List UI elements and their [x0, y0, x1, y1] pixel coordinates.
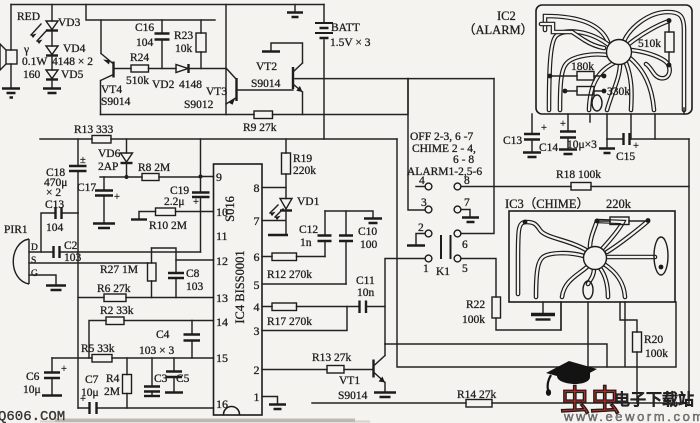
svg-text:2: 2	[418, 222, 424, 234]
svg-text:C11: C11	[356, 275, 375, 287]
svg-text:R13 27k: R13 27k	[312, 352, 352, 364]
capacitor C10 100	[345, 211, 347, 284]
wire terminal 1 to VT1 collector	[385, 259, 425, 345]
resistor 510k	[665, 32, 674, 52]
svg-text:510k: 510k	[638, 38, 661, 50]
svg-text:R13 333: R13 333	[74, 124, 114, 136]
wire riser to C16/R23 top rail	[86, 5, 215, 21]
svg-text:C15: C15	[616, 151, 635, 163]
svg-text:R18 100k: R18 100k	[556, 169, 601, 181]
capacitor C2 103 (on D wire)	[29, 251, 201, 253]
svg-text:电子下载站: 电子下载站	[614, 390, 694, 409]
transistor VT4	[112, 62, 114, 78]
wire diode chain to ground	[51, 80, 53, 89]
resistor R9 27k	[101, 79, 409, 115]
svg-text:+: +	[61, 364, 67, 375]
WIRES-TOPLEFT	[0, 5, 494, 415]
ground (diode chain)	[43, 89, 61, 94]
capacitor C15	[607, 138, 689, 140]
wire terminal 4 stub	[416, 186, 425, 188]
scan smudge bottom	[55, 419, 355, 422]
wire base VT3 to base VT2	[238, 89, 294, 91]
svg-text:R9 27k: R9 27k	[243, 122, 277, 134]
resistor R24 510k (base wire)	[114, 68, 177, 70]
svg-text:VD3: VD3	[58, 17, 81, 29]
svg-text:6 - 8: 6 - 8	[453, 154, 474, 166]
svg-text:S9014: S9014	[101, 96, 131, 108]
svg-text:1.5V × 3: 1.5V × 3	[330, 37, 371, 49]
svg-text:R20: R20	[644, 334, 663, 346]
left vertical bus x78	[77, 213, 79, 408]
svg-text:12: 12	[216, 254, 228, 268]
wire collector column VT3	[225, 5, 227, 115]
op-amp IC4 BISS0001 body	[214, 164, 263, 415]
WATERMARKS	[0, 361, 700, 423]
LED light arrows	[31, 24, 47, 41]
svg-text:www.eeworm.com: www.eeworm.com	[563, 409, 700, 423]
svg-text:2: 2	[254, 363, 260, 377]
svg-text:VD4: VD4	[63, 43, 86, 55]
resistor 180k	[550, 75, 604, 77]
wire terminal 7 to ground	[461, 210, 470, 218]
wire G to ground	[29, 275, 56, 285]
svg-text:180k: 180k	[571, 61, 594, 73]
svg-text:VD5: VD5	[61, 69, 84, 81]
resistor R8 2M	[100, 176, 200, 178]
svg-text:VT1: VT1	[339, 375, 360, 387]
IC2 chip traces	[545, 16, 608, 42]
svg-text:Q606.COM: Q606.COM	[0, 409, 65, 423]
resistor R10 2M	[139, 212, 214, 220]
svg-text:R4: R4	[106, 373, 120, 385]
svg-text:7: 7	[464, 197, 470, 209]
svg-text:+: +	[114, 192, 120, 203]
svg-text:8: 8	[254, 181, 260, 195]
svg-text:C5: C5	[176, 373, 190, 385]
resistor R12 270k (pin6)	[262, 256, 325, 258]
svg-text:10n: 10n	[357, 287, 375, 299]
capacitor C13	[524, 134, 540, 140]
svg-text:K1: K1	[436, 266, 450, 278]
WIRES-RIGHT	[463, 5, 692, 403]
resistor R20 100k	[633, 332, 642, 352]
svg-text:VT4: VT4	[101, 84, 122, 96]
svg-text:104: 104	[136, 37, 154, 49]
svg-text:4148: 4148	[179, 79, 202, 91]
svg-text:160: 160	[23, 69, 41, 81]
svg-text:S9014: S9014	[338, 390, 368, 402]
transistor VT1 S9014	[372, 360, 374, 378]
capacitor C8 103	[152, 248, 177, 298]
wire terminal 6 from rail	[461, 79, 494, 234]
svg-text:9: 9	[216, 170, 222, 184]
svg-text:IC3（CHIME）: IC3（CHIME）	[505, 197, 589, 211]
wire T3 riser x408	[408, 79, 425, 210]
watermark graduation cap	[546, 361, 597, 381]
svg-text:+: +	[560, 119, 566, 130]
resistor R4 2M	[126, 358, 128, 408]
IC3 chip traces	[518, 222, 586, 294]
ground (speaker)	[2, 89, 20, 98]
svg-text:S9014: S9014	[251, 78, 281, 90]
resistor R22 100k	[492, 297, 501, 318]
LED VD1	[280, 199, 292, 210]
svg-text:10μ: 10μ	[81, 387, 99, 399]
wire pin7 and VD1 lower bar	[262, 211, 286, 235]
wire C12/C10 top ground rail	[325, 211, 373, 218]
wire speaker column	[10, 5, 12, 89]
switch K1 contacts	[425, 183, 432, 190]
svg-text:VD1: VD1	[297, 196, 320, 208]
IC2 chip blob	[607, 40, 632, 65]
capacitor C12 1n	[324, 211, 326, 257]
svg-text:103: 103	[64, 252, 82, 264]
svg-text:IC4 BISS0001: IC4 BISS0001	[233, 250, 247, 323]
svg-text:VT3: VT3	[206, 86, 227, 98]
svg-text:0.1W: 0.1W	[22, 56, 47, 68]
svg-text:1: 1	[423, 263, 429, 275]
svg-text:2.2μ: 2.2μ	[164, 196, 185, 208]
speaker LS	[6, 50, 17, 64]
svg-text:1n: 1n	[300, 237, 312, 249]
IC2 top-left staircase trace	[541, 24, 604, 48]
svg-text:R14 27k: R14 27k	[457, 389, 497, 401]
svg-text:C4: C4	[156, 329, 170, 341]
ground (under C15 wire)	[606, 139, 608, 148]
IC2 pin stubs	[532, 108, 684, 139]
svg-text:C14: C14	[539, 142, 558, 154]
svg-text:C10: C10	[358, 226, 377, 238]
svg-text:R10 2M: R10 2M	[149, 220, 187, 232]
capacitor C4	[191, 321, 193, 359]
svg-text:VD6: VD6	[98, 148, 121, 160]
WIRES-MID	[214, 79, 690, 415]
svg-text:S9012: S9012	[184, 99, 214, 111]
resistor R17 270k (pin4)	[262, 306, 359, 308]
svg-text:PIR1: PIR1	[4, 224, 28, 236]
wire VT1 collector rail y344	[385, 344, 607, 367]
wire pin12	[176, 259, 214, 261]
capacitor C13 104 (left)	[41, 213, 78, 252]
svg-text:× 2: × 2	[46, 187, 61, 199]
svg-text:100k: 100k	[462, 314, 485, 326]
resistor R13 27k (pin2)	[262, 369, 373, 371]
svg-text:C6: C6	[26, 371, 40, 383]
svg-text:10μ×3: 10μ×3	[567, 139, 597, 151]
LED VD3	[51, 5, 53, 22]
svg-text:R8 2M: R8 2M	[138, 162, 170, 174]
svg-text:R12 270k: R12 270k	[267, 269, 312, 281]
svg-text:15: 15	[216, 351, 228, 365]
svg-text:4: 4	[254, 300, 260, 314]
svg-text:220k: 220k	[606, 197, 632, 211]
diode VD6 2AP	[126, 139, 128, 153]
svg-text:330k: 330k	[607, 86, 630, 98]
svg-text:γ: γ	[23, 44, 29, 56]
wire terminal 8 / R18 run	[461, 186, 689, 188]
wire S to R27	[29, 262, 148, 264]
IC2 bottom pin oval	[592, 95, 602, 111]
svg-text:G: G	[31, 269, 38, 279]
ground (IC3 pin, heavy)	[531, 313, 555, 316]
svg-text:ALARM1-2,5-6: ALARM1-2,5-6	[407, 166, 482, 178]
ground (top, near battery)	[294, 5, 296, 13]
svg-text:220k: 220k	[293, 165, 316, 177]
switch K1 coupling bars	[441, 235, 451, 259]
supply rail y139 with resistor R13 333	[40, 138, 397, 140]
capacitor C19 2.2u	[192, 193, 210, 198]
svg-text:R6 27k: R6 27k	[97, 283, 131, 295]
resistor R2 33k (pin14 wire)	[89, 321, 214, 359]
ground (C17)	[93, 224, 115, 229]
wire right bus x689	[688, 139, 690, 403]
svg-text:104: 104	[46, 222, 64, 234]
resistor R19 220k	[285, 139, 287, 188]
svg-text:C13: C13	[503, 135, 522, 147]
battery BATT 1.5V x3	[323, 5, 325, 140]
svg-text:S016: S016	[223, 196, 237, 222]
svg-text:R24: R24	[130, 52, 149, 64]
svg-text:16: 16	[216, 397, 228, 411]
wire pin8	[262, 188, 286, 199]
resistor 220k with dots	[597, 220, 648, 222]
svg-text:VD2: VD2	[152, 79, 175, 91]
wire emitter rail y78.6	[295, 78, 494, 80]
svg-text:（ALARM）: （ALARM）	[463, 23, 533, 37]
svg-text:+: +	[541, 123, 547, 134]
capacitor C18 470u x2	[77, 139, 79, 213]
svg-text:+: +	[193, 197, 199, 208]
wire switch feed vertical x397 and y367 run	[397, 139, 676, 367]
svg-text:R22: R22	[466, 299, 485, 311]
capacitor C16	[161, 20, 163, 69]
svg-text:10μ: 10μ	[23, 384, 41, 396]
capacitor C5	[173, 358, 175, 392]
svg-text:RED: RED	[17, 11, 40, 23]
diode VD5	[51, 56, 53, 71]
svg-text:R2 33k: R2 33k	[100, 305, 134, 317]
transistor VT2 S9014	[292, 67, 294, 89]
svg-text:1: 1	[254, 390, 260, 404]
svg-text:10k: 10k	[175, 43, 193, 55]
svg-text:4148 × 2: 4148 × 2	[52, 56, 93, 68]
svg-text:C2: C2	[64, 240, 78, 252]
svg-text:103 × 3: 103 × 3	[139, 345, 174, 357]
svg-text:R23: R23	[174, 30, 193, 42]
svg-text:C7: C7	[85, 374, 99, 386]
svg-text:C17: C17	[77, 182, 96, 194]
svg-text:14: 14	[216, 315, 228, 329]
diode VD4	[51, 31, 53, 47]
capacitor C11 10n	[360, 301, 367, 314]
svg-text:R5 33k: R5 33k	[81, 343, 115, 355]
resistor R18 100k	[571, 183, 591, 191]
wire pin3 with riser to C11	[262, 307, 347, 331]
svg-text:13: 13	[216, 291, 228, 305]
wire top supply rail	[11, 4, 324, 6]
svg-text:±: ±	[80, 155, 86, 166]
wire pin5	[262, 283, 346, 285]
svg-text:VT2: VT2	[256, 61, 277, 73]
diode VD2 4148	[176, 65, 188, 73]
ground (VT1 emitter)	[374, 393, 396, 398]
svg-text:R17 270k: R17 270k	[267, 316, 312, 328]
svg-text:S: S	[31, 256, 36, 266]
svg-text:R27 1M: R27 1M	[100, 264, 138, 276]
svg-text:11: 11	[216, 229, 228, 243]
resistor R6 27k (pin13 wire)	[78, 297, 214, 299]
capacitor C17	[103, 177, 105, 223]
svg-text:2M: 2M	[104, 386, 120, 398]
node pin9 junction	[199, 175, 203, 179]
svg-text:C16: C16	[135, 22, 154, 34]
resistor R27 1M	[151, 248, 153, 298]
svg-text:7: 7	[254, 214, 260, 228]
svg-text:C8: C8	[186, 268, 200, 280]
resistor 330k	[565, 90, 604, 92]
capacitor C6 10u	[51, 358, 53, 395]
resistor R14 27k on bottom rail	[312, 402, 689, 404]
resistor R23 10k	[200, 20, 202, 69]
svg-text:6: 6	[462, 239, 468, 251]
svg-text:C12: C12	[299, 224, 318, 236]
svg-text:R19: R19	[293, 153, 312, 165]
IC3 center pin oval	[583, 281, 593, 299]
svg-text:2AP: 2AP	[98, 161, 118, 173]
wire pin1 to ground	[262, 397, 278, 405]
svg-text:OFF 2-3, 6 -7: OFF 2-3, 6 -7	[410, 131, 474, 143]
IC3 chip blob	[584, 247, 607, 270]
svg-text:6: 6	[254, 250, 260, 264]
svg-text:5: 5	[254, 278, 260, 292]
svg-text:C3: C3	[154, 373, 168, 385]
svg-text:510k: 510k	[126, 75, 149, 87]
capacitor C7 10u (bottom wire)	[78, 407, 214, 409]
capacitor C3	[151, 358, 153, 396]
transistor VT3 S9012	[235, 78, 237, 101]
svg-text:100k: 100k	[645, 348, 668, 360]
IC3 right oval pad	[654, 237, 668, 275]
resistor R5 33k (pin15 wire)	[52, 357, 214, 359]
svg-text:5: 5	[462, 263, 468, 275]
capacitor C14	[560, 132, 576, 138]
wire terminal 2 to ground	[416, 234, 425, 246]
svg-text:3: 3	[421, 197, 427, 209]
IC3 bottom pin stubs	[543, 302, 637, 367]
svg-text:IC2: IC2	[497, 9, 516, 23]
svg-text:100: 100	[360, 239, 378, 251]
svg-text:3: 3	[254, 324, 260, 338]
svg-text:BATT: BATT	[331, 22, 360, 34]
svg-text:103: 103	[186, 281, 204, 293]
svg-text:C13: C13	[45, 199, 64, 211]
wire terminal 5 to R22	[461, 259, 496, 298]
